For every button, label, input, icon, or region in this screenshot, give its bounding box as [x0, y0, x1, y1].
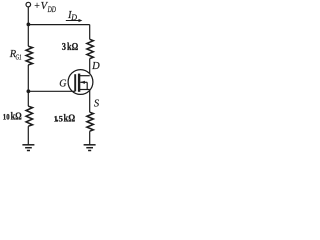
svg-text:10: 10: [3, 111, 10, 121]
wire top horizontal: [28, 24, 89, 26]
svg-text:+: +: [34, 1, 40, 12]
svg-text:DD: DD: [47, 5, 56, 14]
label ID: [67, 10, 77, 22]
svg-text:3: 3: [62, 42, 66, 53]
label RG1: [9, 49, 22, 62]
wire RG1 bottom to 10k top: [27, 65, 29, 106]
resistor 10k zigzag: [26, 106, 32, 126]
resistor 1.5k zigzag: [87, 112, 93, 131]
svg-text:S: S: [94, 99, 100, 110]
terminal +VDD open circle: [26, 2, 31, 7]
current arrow ID: [66, 19, 83, 22]
label +VDD: [34, 1, 56, 14]
wire to ground right: [89, 131, 91, 144]
wire left column: RG1 top lead: [27, 25, 29, 47]
wire source lead: [89, 90, 91, 113]
transistor Q1 circle: [68, 70, 93, 95]
resistor 3k zigzag: [87, 39, 93, 58]
wire gate horizontal: [28, 90, 75, 92]
svg-text:kΩ: kΩ: [11, 111, 22, 122]
wire from VDD terminal down to top junction: [27, 7, 29, 25]
resistor RG1 zigzag: [26, 46, 32, 65]
svg-text:G1: G1: [16, 53, 22, 62]
node junction dot top: [27, 23, 31, 27]
node junction dot gate: [27, 89, 31, 93]
drain link inside: [79, 75, 90, 77]
source link inside: [79, 89, 90, 91]
ground left: [22, 145, 34, 151]
wire right column upper: [89, 25, 91, 40]
svg-text:G: G: [59, 79, 66, 90]
svg-text:5: 5: [59, 114, 63, 124]
ground right: [84, 145, 96, 151]
svg-text:kΩ: kΩ: [64, 114, 76, 125]
wire to ground left: [27, 126, 29, 144]
svg-text:kΩ: kΩ: [67, 42, 78, 53]
svg-text:D: D: [91, 61, 100, 72]
substrate arrow: [80, 81, 87, 90]
transistor gate bar: [74, 74, 76, 91]
wire drain lead: [89, 59, 91, 76]
transistor channel bar: [78, 74, 80, 92]
